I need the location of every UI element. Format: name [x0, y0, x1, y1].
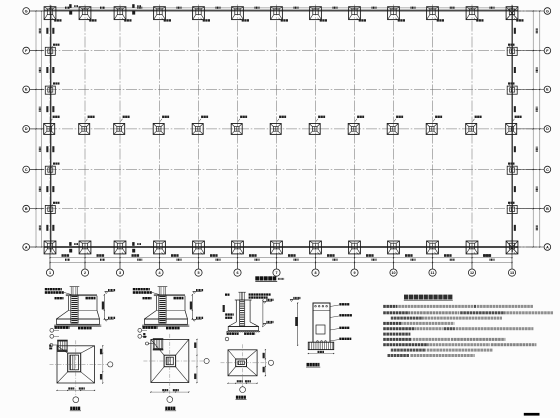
svg-text:E: E	[546, 88, 549, 92]
svg-text:10: 10	[391, 271, 395, 275]
svg-text:5: 5	[197, 271, 199, 275]
svg-text:8: 8	[314, 271, 316, 275]
svg-text:C: C	[25, 168, 28, 172]
svg-text:G: G	[546, 9, 549, 13]
svg-text:F: F	[25, 49, 28, 53]
svg-text:G: G	[25, 9, 28, 13]
svg-text:12: 12	[470, 271, 474, 275]
svg-text:1: 1	[49, 271, 51, 275]
svg-text:7: 7	[275, 271, 277, 275]
svg-text:D: D	[25, 127, 28, 131]
svg-text:2: 2	[84, 271, 86, 275]
svg-text:B: B	[546, 207, 549, 211]
svg-text:3: 3	[119, 271, 121, 275]
svg-text:A: A	[25, 245, 28, 249]
svg-text:9: 9	[353, 271, 355, 275]
svg-text:A: A	[546, 245, 549, 249]
svg-text:4: 4	[158, 271, 161, 275]
svg-text:F: F	[546, 49, 549, 53]
svg-text:6: 6	[236, 271, 238, 275]
svg-text:D: D	[546, 127, 549, 131]
svg-text:13: 13	[510, 271, 514, 275]
svg-text:E: E	[25, 88, 28, 92]
svg-text:B: B	[25, 207, 28, 211]
svg-text:C: C	[546, 168, 549, 172]
svg-text:11: 11	[431, 271, 435, 275]
